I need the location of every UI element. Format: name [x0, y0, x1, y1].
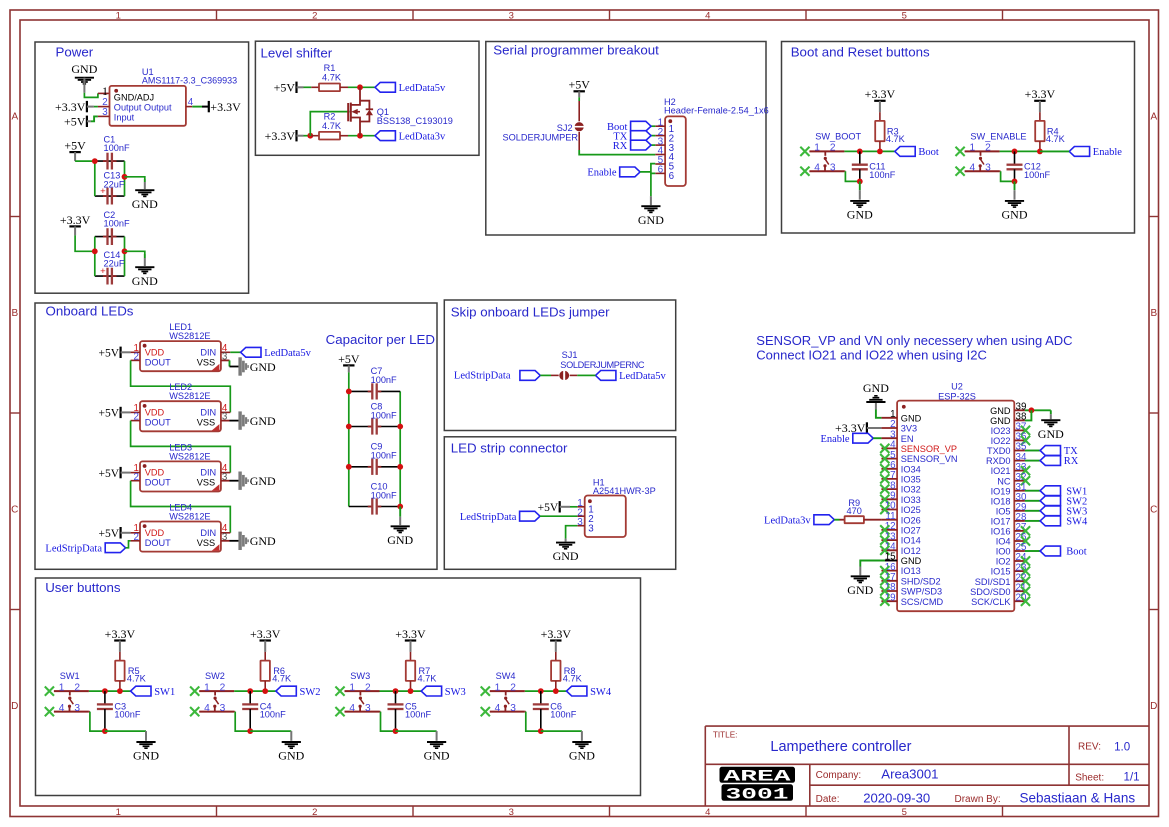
svg-text:4.7K: 4.7K: [322, 121, 342, 131]
svg-text:3: 3: [365, 703, 371, 714]
svg-text:100nF: 100nF: [405, 710, 431, 720]
svg-text:3: 3: [985, 162, 991, 173]
svg-text:D: D: [1150, 701, 1157, 712]
svg-text:IO17: IO17: [991, 517, 1011, 527]
svg-text:SW_ENABLE: SW_ENABLE: [970, 131, 1026, 141]
svg-text:100nF: 100nF: [371, 451, 397, 461]
svg-text:SJ1: SJ1: [562, 350, 578, 360]
svg-text:+5V: +5V: [568, 78, 590, 92]
svg-text:LedData3v: LedData3v: [399, 131, 446, 142]
svg-text:Lampethere controller: Lampethere controller: [770, 739, 911, 755]
svg-text:Boot: Boot: [918, 147, 939, 158]
svg-text:Sheet:: Sheet:: [1075, 773, 1104, 784]
svg-text:5: 5: [902, 11, 907, 22]
svg-text:100nF: 100nF: [260, 710, 286, 720]
svg-text:3: 3: [74, 703, 80, 714]
svg-text:VSS: VSS: [197, 357, 215, 367]
svg-text:2: 2: [510, 682, 516, 693]
svg-text:2: 2: [365, 682, 371, 693]
svg-text:GND: GND: [901, 413, 922, 423]
svg-text:4.7K: 4.7K: [127, 674, 147, 684]
svg-text:IO21: IO21: [991, 466, 1011, 476]
svg-text:1/1: 1/1: [1124, 771, 1140, 784]
svg-text:GND: GND: [1038, 427, 1064, 441]
svg-text:+3.3V: +3.3V: [1025, 87, 1056, 101]
svg-text:IO19: IO19: [991, 486, 1011, 496]
svg-text:+5V: +5V: [99, 408, 120, 420]
svg-text:IO25: IO25: [901, 505, 921, 515]
svg-text:BSS138_C193019: BSS138_C193019: [377, 116, 453, 126]
svg-text:1.0: 1.0: [1114, 740, 1130, 753]
svg-text:Area3001: Area3001: [881, 767, 938, 782]
svg-text:WS2812E: WS2812E: [169, 451, 210, 461]
svg-text:3: 3: [509, 807, 514, 818]
svg-text:AMS1117-3.3_C369933: AMS1117-3.3_C369933: [142, 76, 237, 86]
svg-text:4: 4: [59, 703, 65, 714]
svg-text:IO14: IO14: [901, 536, 921, 546]
svg-text:6: 6: [669, 171, 675, 182]
svg-text:100nF: 100nF: [371, 410, 397, 420]
svg-text:4.7K: 4.7K: [322, 72, 342, 82]
svg-text:+3.3V: +3.3V: [265, 129, 296, 143]
svg-text:2: 2: [312, 11, 317, 22]
svg-text:+3.3V: +3.3V: [395, 627, 426, 641]
svg-text:WS2812E: WS2812E: [169, 331, 210, 341]
svg-text:3V3: 3V3: [901, 424, 917, 434]
svg-text:22uF: 22uF: [104, 179, 125, 189]
svg-text:4: 4: [204, 703, 210, 714]
svg-text:VDD: VDD: [145, 468, 165, 478]
svg-text:4.7K: 4.7K: [1046, 134, 1066, 144]
svg-text:+3.3V: +3.3V: [250, 627, 281, 641]
svg-text:AREA: AREA: [724, 768, 792, 786]
svg-text:2: 2: [985, 143, 991, 154]
svg-text:3001: 3001: [726, 786, 789, 804]
svg-text:SCK/CLK: SCK/CLK: [971, 597, 1011, 607]
svg-text:IO23: IO23: [991, 426, 1011, 436]
svg-text:+3.3V: +3.3V: [60, 213, 91, 227]
svg-text:IO32: IO32: [901, 485, 921, 495]
svg-text:LedData5v: LedData5v: [619, 371, 666, 382]
svg-text:DOUT: DOUT: [145, 538, 171, 548]
svg-text:GND: GND: [569, 749, 595, 763]
svg-text:SW2: SW2: [205, 671, 225, 681]
svg-text:LedStripData: LedStripData: [454, 371, 511, 382]
svg-text:1: 1: [969, 143, 975, 154]
svg-text:DIN: DIN: [200, 408, 216, 418]
svg-text:LED strip connector: LED strip connector: [451, 440, 568, 455]
svg-text:DIN: DIN: [200, 468, 216, 478]
svg-text:Power: Power: [56, 44, 94, 59]
svg-text:+5V: +5V: [99, 468, 120, 480]
svg-text:IO22: IO22: [991, 436, 1011, 446]
svg-text:2020-09-30: 2020-09-30: [863, 790, 930, 805]
svg-text:GND: GND: [863, 381, 889, 395]
svg-text:GND: GND: [638, 213, 664, 227]
svg-text:GND/ADJ: GND/ADJ: [114, 93, 154, 103]
svg-text:Level shifter: Level shifter: [261, 46, 333, 61]
svg-text:1: 1: [116, 807, 121, 818]
svg-text:1: 1: [349, 682, 355, 693]
svg-text:SJ2: SJ2: [557, 123, 573, 133]
svg-text:2: 2: [133, 352, 138, 363]
svg-text:+5V: +5V: [64, 115, 86, 129]
svg-text:Enable: Enable: [587, 168, 616, 179]
svg-text:D: D: [11, 701, 18, 712]
svg-text:GND: GND: [990, 416, 1011, 426]
svg-text:SW4: SW4: [496, 671, 516, 681]
svg-text:SW3: SW3: [350, 671, 370, 681]
svg-text:3: 3: [588, 523, 594, 534]
svg-text:IO2: IO2: [996, 557, 1011, 567]
svg-text:SW_BOOT: SW_BOOT: [815, 131, 861, 141]
svg-text:SCS/CMD: SCS/CMD: [901, 597, 944, 607]
svg-text:VDD: VDD: [145, 408, 165, 418]
svg-text:Capacitor per LED: Capacitor per LED: [326, 332, 435, 347]
svg-text:Serial programmer breakout: Serial programmer breakout: [493, 42, 659, 57]
svg-text:SENSOR_VP and VN only necesser: SENSOR_VP and VN only necessery when usi…: [756, 333, 1072, 348]
svg-text:1: 1: [102, 84, 108, 98]
svg-text:+5V: +5V: [338, 352, 360, 366]
svg-text:+3.3V: +3.3V: [541, 627, 572, 641]
svg-text:Sebastiaan & Hans: Sebastiaan & Hans: [1020, 790, 1136, 805]
svg-text:Drawn By:: Drawn By:: [955, 794, 1001, 805]
svg-text:100nF: 100nF: [114, 710, 140, 720]
svg-text:4: 4: [705, 11, 710, 22]
svg-text:VDD: VDD: [145, 528, 165, 538]
svg-text:100nF: 100nF: [371, 375, 397, 385]
svg-text:Enable: Enable: [1093, 147, 1122, 158]
svg-text:100nF: 100nF: [371, 490, 397, 500]
svg-text:TXD0: TXD0: [987, 446, 1011, 456]
svg-text:IO34: IO34: [901, 464, 921, 474]
svg-text:IO27: IO27: [901, 526, 921, 536]
svg-text:GND: GND: [132, 197, 158, 211]
svg-text:LedData5v: LedData5v: [264, 348, 311, 359]
svg-text:IO26: IO26: [901, 515, 921, 525]
svg-text:SHD/SD2: SHD/SD2: [901, 576, 941, 586]
svg-text:+3.3V: +3.3V: [55, 100, 86, 114]
svg-text:Onboard LEDs: Onboard LEDs: [46, 304, 134, 319]
svg-text:IO13: IO13: [901, 566, 921, 576]
svg-text:DIN: DIN: [200, 347, 216, 357]
svg-text:+5V: +5V: [538, 502, 559, 514]
svg-text:2: 2: [220, 682, 226, 693]
svg-text:GND: GND: [1002, 208, 1028, 222]
svg-text:100nF: 100nF: [550, 710, 576, 720]
svg-text:GND: GND: [553, 549, 579, 563]
svg-text:2: 2: [133, 472, 138, 483]
svg-text:4.7K: 4.7K: [418, 674, 438, 684]
svg-text:DOUT: DOUT: [145, 357, 171, 367]
svg-text:SOLDERJUMPERNC: SOLDERJUMPERNC: [560, 360, 645, 370]
svg-text:1: 1: [59, 682, 65, 693]
svg-text:+3.3V: +3.3V: [865, 87, 896, 101]
svg-text:Header-Female-2.54_1x6: Header-Female-2.54_1x6: [664, 106, 769, 116]
svg-text:IO35: IO35: [901, 475, 921, 485]
svg-text:+5V: +5V: [274, 81, 296, 95]
svg-text:GND: GND: [990, 406, 1011, 416]
svg-text:DIN: DIN: [200, 528, 216, 538]
svg-text:GND: GND: [424, 749, 450, 763]
svg-text:DOUT: DOUT: [145, 417, 171, 427]
svg-text:3: 3: [220, 703, 226, 714]
svg-text:SDO/SD0: SDO/SD0: [970, 587, 1010, 597]
svg-text:3: 3: [577, 517, 583, 528]
svg-text:3: 3: [510, 703, 516, 714]
svg-text:Company:: Company:: [816, 770, 862, 781]
svg-text:1: 1: [116, 11, 121, 22]
svg-text:IO5: IO5: [996, 506, 1011, 516]
svg-text:U2: U2: [951, 381, 963, 391]
svg-text:C: C: [11, 504, 18, 515]
svg-text:Output Output: Output Output: [114, 103, 172, 113]
svg-text:WS2812E: WS2812E: [169, 512, 210, 522]
svg-text:RXD0: RXD0: [986, 456, 1011, 466]
svg-text:Boot and Reset buttons: Boot and Reset buttons: [791, 45, 930, 60]
svg-text:Enable: Enable: [820, 434, 849, 445]
svg-text:ESP-32S: ESP-32S: [938, 391, 976, 401]
svg-text:A2541HWR-3P: A2541HWR-3P: [593, 486, 656, 496]
svg-text:4.7K: 4.7K: [886, 134, 906, 144]
svg-text:RX: RX: [613, 141, 628, 152]
svg-text:A: A: [11, 111, 18, 122]
svg-text:4: 4: [814, 162, 820, 173]
svg-text:6: 6: [658, 165, 664, 176]
svg-text:+5V: +5V: [64, 139, 86, 153]
svg-text:GND: GND: [250, 534, 276, 548]
svg-text:EN: EN: [901, 434, 914, 444]
svg-text:SW1: SW1: [154, 687, 175, 698]
svg-text:RX: RX: [1064, 456, 1079, 467]
svg-text:LedStripData: LedStripData: [460, 512, 517, 523]
svg-text:2: 2: [133, 412, 138, 423]
svg-text:B: B: [1150, 308, 1157, 319]
svg-text:IO18: IO18: [991, 496, 1011, 506]
svg-text:IO0: IO0: [996, 547, 1011, 557]
svg-text:SW1: SW1: [60, 671, 80, 681]
svg-text:GND: GND: [387, 533, 413, 547]
svg-text:VSS: VSS: [197, 538, 215, 548]
svg-text:A: A: [1150, 111, 1157, 122]
svg-text:VSS: VSS: [197, 417, 215, 427]
svg-text:SW4: SW4: [590, 687, 612, 698]
svg-text:WS2812E: WS2812E: [169, 391, 210, 401]
svg-text:2: 2: [312, 807, 317, 818]
svg-text:4: 4: [705, 807, 710, 818]
svg-text:TITLE:: TITLE:: [713, 731, 738, 740]
svg-text:2: 2: [830, 143, 836, 154]
svg-text:5: 5: [902, 807, 907, 818]
svg-text:SOLDERJUMPER: SOLDERJUMPER: [502, 133, 578, 143]
svg-text:+3.3V: +3.3V: [105, 627, 136, 641]
svg-text:2: 2: [133, 532, 138, 543]
svg-text:4: 4: [495, 703, 501, 714]
svg-text:Input: Input: [114, 112, 135, 122]
svg-text:VSS: VSS: [197, 478, 215, 488]
svg-text:NC: NC: [997, 476, 1011, 486]
svg-text:SENSOR_VN: SENSOR_VN: [901, 454, 958, 464]
svg-text:SW3: SW3: [445, 687, 466, 698]
svg-text:100nF: 100nF: [104, 219, 130, 229]
svg-text:1: 1: [814, 143, 820, 154]
svg-text:REV:: REV:: [1078, 741, 1101, 752]
svg-text:IO12: IO12: [901, 546, 921, 556]
svg-text:GND: GND: [250, 360, 276, 374]
svg-text:B: B: [11, 308, 18, 319]
svg-text:470: 470: [847, 506, 862, 516]
svg-text:2: 2: [74, 682, 80, 693]
svg-text:Connect IO21 and IO22 when usi: Connect IO21 and IO22 when using I2C: [756, 348, 987, 363]
svg-text:+5V: +5V: [99, 348, 120, 360]
svg-text:4.7K: 4.7K: [272, 674, 292, 684]
svg-text:GND: GND: [847, 583, 873, 597]
svg-text:LedStripData: LedStripData: [45, 544, 102, 555]
svg-text:IO16: IO16: [991, 527, 1011, 537]
svg-text:1: 1: [204, 682, 210, 693]
svg-text:22uF: 22uF: [104, 259, 125, 269]
svg-text:User buttons: User buttons: [45, 580, 121, 595]
svg-text:DOUT: DOUT: [145, 478, 171, 488]
svg-text:100nF: 100nF: [104, 143, 130, 153]
svg-text:GND: GND: [901, 556, 922, 566]
svg-text:LedData3v: LedData3v: [764, 515, 811, 526]
svg-text:C: C: [1150, 504, 1157, 515]
svg-text:GND: GND: [250, 474, 276, 488]
svg-text:GND: GND: [71, 62, 97, 76]
svg-text:SW4: SW4: [1066, 517, 1088, 528]
svg-text:SW2: SW2: [300, 687, 321, 698]
svg-text:4.7K: 4.7K: [563, 674, 583, 684]
svg-text:SDI/SD1: SDI/SD1: [975, 577, 1011, 587]
svg-text:IO15: IO15: [991, 567, 1011, 577]
svg-text:GND: GND: [278, 749, 304, 763]
svg-text:LedData5v: LedData5v: [399, 83, 446, 94]
svg-text:GND: GND: [132, 274, 158, 288]
svg-text:IO4: IO4: [996, 537, 1011, 547]
svg-text:IO33: IO33: [901, 495, 921, 505]
svg-text:Boot: Boot: [1066, 547, 1087, 558]
svg-text:1: 1: [495, 682, 501, 693]
svg-text:100nF: 100nF: [869, 170, 895, 180]
svg-text:SWP/SD3: SWP/SD3: [901, 587, 942, 597]
svg-text:+5V: +5V: [99, 528, 120, 540]
svg-text:4: 4: [349, 703, 355, 714]
svg-text:+3.3V: +3.3V: [210, 100, 241, 114]
svg-text:SENSOR_VP: SENSOR_VP: [901, 444, 957, 454]
svg-text:3: 3: [509, 11, 514, 22]
svg-text:GND: GND: [847, 208, 873, 222]
svg-text:Date:: Date:: [816, 794, 840, 805]
svg-text:VDD: VDD: [145, 347, 165, 357]
svg-text:GND: GND: [133, 749, 159, 763]
svg-text:GND: GND: [250, 414, 276, 428]
svg-text:Skip onboard LEDs jumper: Skip onboard LEDs jumper: [451, 305, 610, 320]
svg-text:100nF: 100nF: [1024, 170, 1050, 180]
svg-text:4: 4: [969, 162, 975, 173]
svg-text:3: 3: [830, 162, 836, 173]
